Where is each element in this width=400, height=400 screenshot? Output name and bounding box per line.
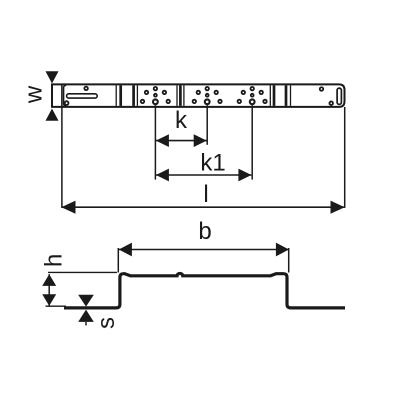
dimension k1 line	[156, 174, 251, 176]
bend mark cluster C	[270, 85, 290, 106]
h bottom extension line	[46, 305, 67, 307]
dimension w bottom arrow	[46, 109, 59, 121]
svg-text:k: k	[175, 107, 188, 134]
dimension l right arrow	[331, 201, 345, 214]
vertical slot right end	[337, 88, 341, 104]
dimension s tail line	[85, 322, 87, 326]
dimension l line	[62, 206, 345, 208]
dimension w top arrow	[46, 71, 59, 83]
dimension k right arrow	[194, 134, 207, 147]
hole group 1	[141, 87, 170, 104]
svg-text:h: h	[41, 254, 68, 267]
l extension line left	[61, 107, 63, 208]
bend mark cluster A	[116, 85, 137, 106]
hole above slot	[84, 87, 88, 91]
bend mark cluster B	[177, 85, 184, 106]
svg-text:s: s	[93, 317, 120, 329]
h top extension line	[48, 271, 117, 273]
rail outline (top view strip)	[52, 84, 345, 107]
svg-text:k1: k1	[200, 150, 225, 177]
dimension k1 right arrow	[238, 169, 251, 182]
extension line from hole group 2	[206, 105, 208, 145]
left end separator line	[61, 84, 63, 107]
extension line from hole group 1	[154, 105, 156, 179]
dimension h top arrow	[42, 274, 56, 286]
dimension h bottom arrow	[42, 294, 56, 306]
horizontal slot	[67, 94, 98, 98]
dimension h	[48, 274, 50, 306]
dimension b right arrow	[276, 243, 289, 257]
dimension k line	[156, 140, 207, 142]
l extension line right	[344, 107, 346, 208]
hole below slot	[65, 101, 69, 105]
svg-text:l: l	[203, 181, 208, 208]
profile cross-section	[64, 274, 345, 308]
inner left rounded edge	[64, 85, 67, 106]
dimension k1 left arrow	[156, 169, 169, 182]
b extension line left	[117, 248, 119, 273]
dimension s top arrow	[78, 295, 94, 307]
dimension b left arrow	[119, 243, 132, 257]
hole group 2	[193, 87, 222, 104]
right section holes	[320, 87, 324, 91]
svg-text:w: w	[21, 85, 48, 104]
extension line from hole group 3	[251, 105, 253, 179]
svg-text:b: b	[198, 218, 211, 245]
dimension b line	[119, 249, 289, 251]
b extension line right	[288, 248, 290, 273]
dimension l left arrow	[61, 201, 75, 214]
dimension s bottom arrow	[78, 310, 94, 322]
hole group 3	[238, 87, 267, 104]
dimension k left arrow	[156, 134, 169, 147]
